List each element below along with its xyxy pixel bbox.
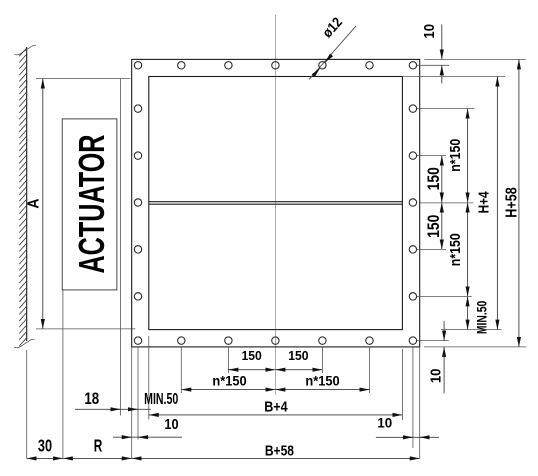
extension line bottom hole row right — [417, 340, 449, 342]
bolt hole right column 6 — [409, 293, 416, 300]
bolt hole left column 6 — [134, 293, 141, 300]
dimension 150 right lower — [441, 203, 443, 250]
wall hatching — [19, 48, 26, 346]
bolt hole bottom row 5 — [319, 337, 326, 344]
extension line top hole row right — [417, 64, 449, 66]
extension line hole column 1 bottom — [137, 347, 139, 440]
bolt hole top row 4 — [272, 62, 279, 69]
bolt hole bottom row 6 — [366, 337, 373, 344]
svg-text:10: 10 — [164, 415, 178, 432]
label 18 — [84, 390, 99, 409]
extension line inner bottom edge right — [441, 329, 502, 331]
extension line hole column 6 bottom — [369, 347, 371, 393]
label 10 bottom right side — [427, 368, 444, 383]
extension line hole row 3 right — [417, 155, 446, 157]
label B+4 — [264, 399, 288, 415]
svg-text:H+4: H+4 — [475, 191, 491, 214]
bolt hole top row 6 — [366, 62, 373, 69]
leader line for hole diameter — [309, 26, 356, 80]
dimension 10 bottom right side (hole row to edge) — [443, 321, 445, 393]
bolt hole bottom row 2 — [178, 337, 185, 344]
label 150 right lower — [425, 215, 443, 238]
label 150 right upper — [425, 167, 443, 190]
svg-text:10: 10 — [420, 24, 437, 39]
svg-text:150: 150 — [425, 215, 443, 238]
extension line hole column 2 bottom — [180, 347, 182, 393]
label MIN.50 bottom — [144, 390, 178, 408]
dimension n*150 right upper — [467, 109, 469, 203]
svg-text:10: 10 — [427, 368, 444, 383]
svg-text:10: 10 — [377, 416, 392, 431]
flange inner rectangle (duct opening) — [149, 77, 403, 330]
label H+58 — [503, 187, 521, 217]
bolt hole bottom row 3 — [225, 337, 232, 344]
dimension n*150 bottom left of center — [181, 389, 275, 391]
dimension B+4 — [149, 414, 403, 416]
dimension H+4 — [496, 77, 498, 330]
label n*150 right lower — [447, 233, 463, 266]
dimension 150 right upper — [441, 156, 443, 203]
extension line outer left edge bottom — [131, 347, 133, 459]
label MIN.50 right — [474, 301, 490, 334]
svg-text:ACTUATOR: ACTUATOR — [72, 134, 113, 273]
dimension R — [63, 457, 132, 459]
dimension 10 top right (edge to hole row) — [441, 24, 443, 83]
dimension H+58 — [518, 59, 520, 347]
svg-text:150: 150 — [241, 349, 261, 363]
extension line hole column 3 bottom — [227, 347, 229, 373]
label 150 bottom right — [288, 349, 308, 363]
extension line actuator mounting — [120, 79, 122, 416]
extension line inner top edge right — [402, 76, 505, 78]
bolt hole top row 3 — [225, 62, 232, 69]
label n*150 right upper — [447, 138, 463, 171]
bolt hole top row 1 — [134, 62, 141, 69]
svg-text:B+58: B+58 — [265, 442, 294, 459]
label 10 top right — [420, 24, 437, 39]
dimension 10 bottom left (edge to hole column) — [113, 436, 182, 438]
dimension MIN.50 right — [467, 296, 469, 329]
svg-text:n*150: n*150 — [212, 373, 246, 389]
svg-text:150: 150 — [425, 167, 443, 190]
dimension 30 — [27, 457, 63, 459]
dimension n*150 right lower — [467, 203, 469, 297]
label 10 bottom left — [164, 415, 178, 432]
bolt hole right column 4 — [409, 199, 416, 206]
extension line inner left edge bottom — [148, 336, 150, 420]
svg-text:18: 18 — [84, 390, 99, 409]
label diameter 12 — [319, 14, 345, 41]
svg-text:n*150: n*150 — [447, 138, 463, 171]
bolt hole top row 7 — [409, 62, 416, 69]
dimension 150 bottom right of center — [275, 369, 322, 371]
bolt hole left column 2 — [134, 105, 141, 112]
label B+58 — [265, 442, 294, 459]
bolt hole bottom row 4 — [272, 337, 279, 344]
svg-text:n*150: n*150 — [305, 373, 339, 389]
extension line hole row 5 right — [417, 248, 446, 250]
svg-text:150: 150 — [288, 349, 308, 363]
dimension 18 and MIN.50 bottom line — [75, 408, 151, 410]
svg-text:A: A — [26, 198, 43, 208]
extension line outer top edge right — [424, 58, 525, 60]
svg-text:MIN.50: MIN.50 — [144, 390, 178, 408]
label H+4 — [475, 191, 491, 214]
label n*150 bottom right — [305, 373, 339, 389]
svg-text:B+4: B+4 — [264, 399, 288, 415]
bolt hole top row 5 — [319, 62, 326, 69]
label 150 bottom left — [241, 349, 261, 363]
label 10 bottom right — [377, 416, 392, 431]
label n*150 bottom left — [212, 373, 246, 389]
extension line outer bottom edge right — [424, 346, 527, 348]
svg-text:MIN.50: MIN.50 — [474, 301, 490, 334]
bolt hole right column 3 — [409, 152, 416, 159]
dimension 10 bottom right (hole column to edge) — [376, 436, 439, 438]
extension line hole row 6 right — [417, 295, 472, 297]
svg-text:H+58: H+58 — [503, 187, 521, 217]
wall break squiggle top — [15, 45, 37, 55]
label 30 — [38, 437, 52, 456]
bolt hole right column 5 — [409, 246, 416, 253]
label ACTUATOR — [72, 134, 113, 273]
flange outer rectangle — [132, 59, 420, 347]
extension line hole row 2 right — [417, 108, 475, 110]
dimension A extension line top — [36, 78, 130, 80]
label A — [26, 198, 43, 208]
extension line hole column 5 bottom — [321, 347, 323, 373]
extension line blade seam right — [420, 202, 474, 204]
extension line outer right edge bottom — [419, 347, 421, 459]
blade seam upper line — [149, 201, 403, 203]
label R — [94, 438, 103, 457]
dimension A extension line bottom — [36, 328, 135, 330]
vertical centerline of duct — [274, 15, 276, 395]
extension line hole column 7 bottom — [412, 347, 414, 448]
dimension 150 bottom left of center — [228, 369, 275, 371]
blade seam lower line — [149, 203, 403, 205]
extension line inner right edge bottom — [401, 349, 403, 420]
dimension A line — [42, 79, 44, 329]
bolt hole left column 3 — [134, 152, 141, 159]
extension line actuator left edge — [62, 290, 64, 458]
dimension B+58 — [132, 457, 420, 459]
wall break squiggle bottom — [14, 339, 35, 347]
svg-text:n*150: n*150 — [447, 233, 463, 266]
actuator box — [62, 119, 117, 290]
bolt hole bottom row 7 — [409, 337, 416, 344]
bolt hole left column 4 — [134, 199, 141, 206]
bolt hole bottom row 1 — [134, 337, 141, 344]
bolt hole right column 2 — [409, 105, 416, 112]
svg-text:R: R — [94, 438, 103, 457]
bolt hole left column 5 — [134, 246, 141, 253]
extension line wall bottom — [26, 350, 28, 458]
wall mounting line — [26, 47, 28, 341]
svg-text:30: 30 — [38, 437, 52, 456]
bolt hole top row 2 — [178, 62, 185, 69]
dimension n*150 bottom right of center — [275, 389, 369, 391]
